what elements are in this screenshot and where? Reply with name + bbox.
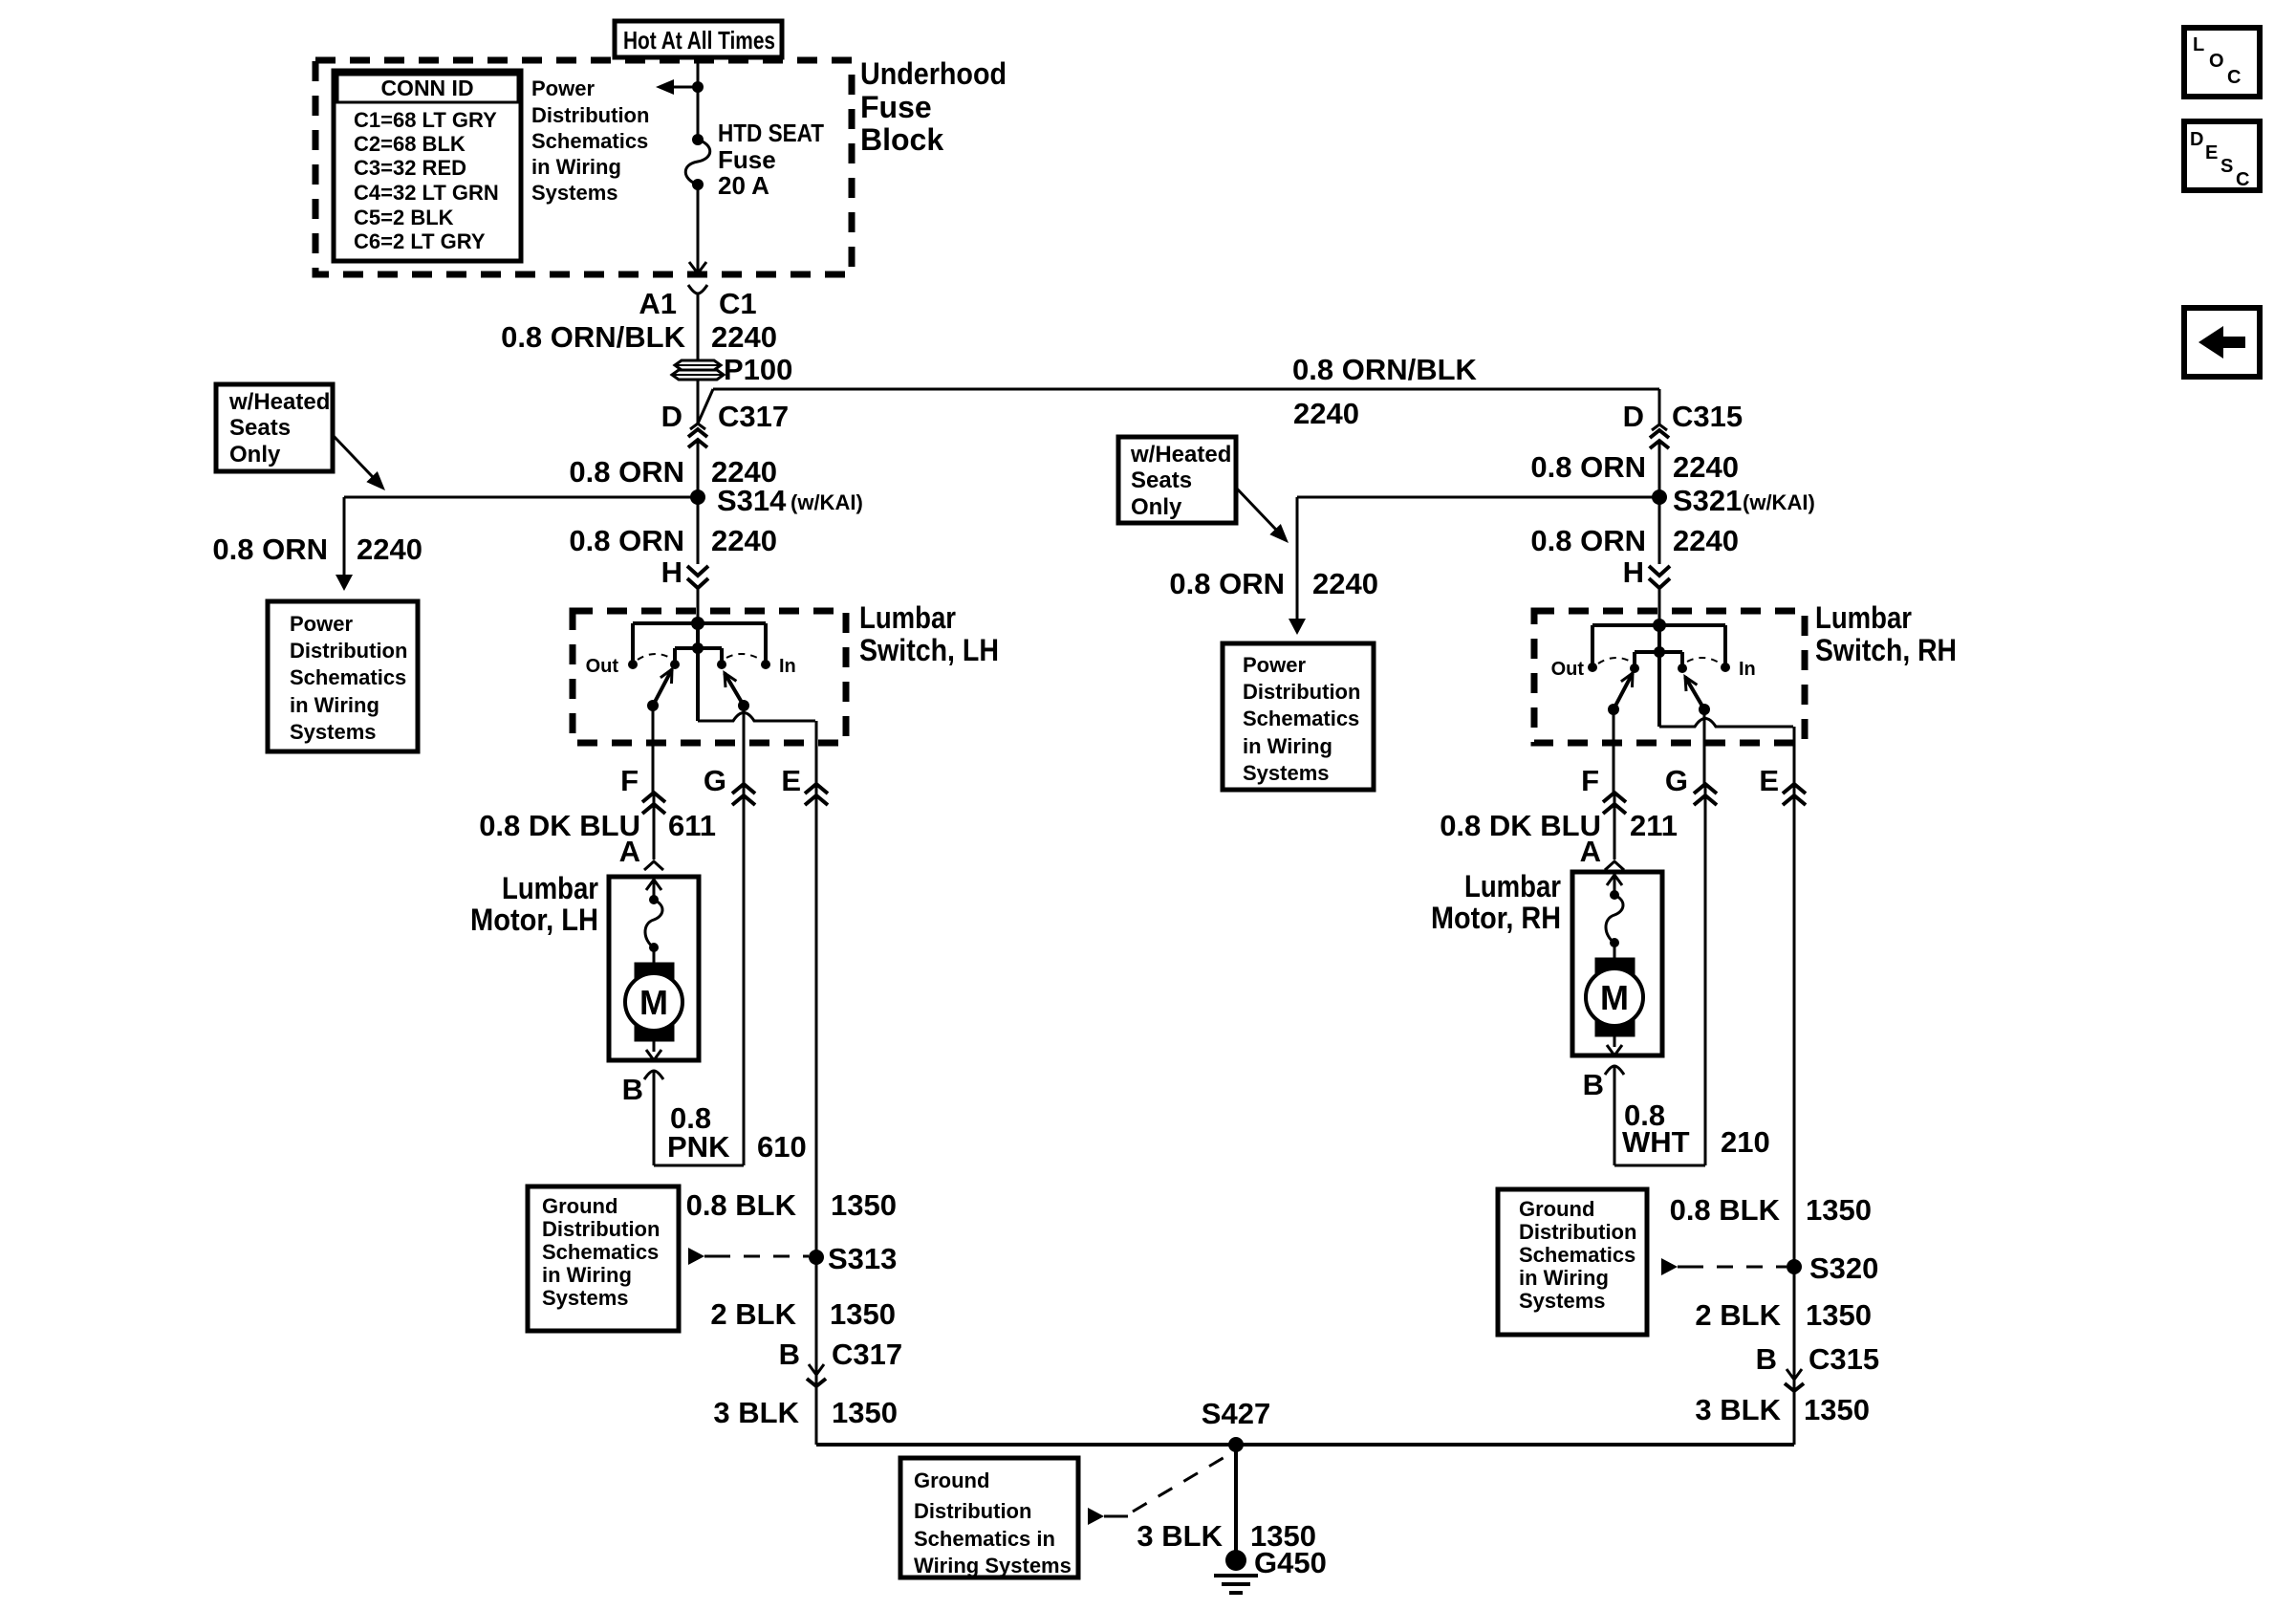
svg-text:HTD SEAT: HTD SEAT [718, 119, 824, 147]
label 0.8 PNK 610 [667, 1101, 807, 1164]
svg-text:S: S [2220, 156, 2233, 177]
svg-text:Motor, LH: Motor, LH [470, 903, 598, 937]
arrow w/Heated to wire (left) [333, 435, 385, 490]
Ground Distribution box (bottom) [900, 1458, 1078, 1577]
label Power Distribution Schematics in Wiring Systems (right) [1243, 653, 1360, 785]
connector D C317 [661, 400, 790, 447]
switch RH top junction and bar [1592, 619, 1725, 667]
wire E pin (RH) [1659, 719, 1806, 1446]
svg-text:Wiring Systems: Wiring Systems [914, 1554, 1072, 1577]
svg-text:S321: S321 [1673, 484, 1742, 517]
svg-text:1350: 1350 [1806, 1298, 1872, 1332]
wire C315 to S321 [1658, 441, 1661, 497]
svg-text:(w/KAI): (w/KAI) [791, 490, 863, 514]
svg-text:M: M [1600, 978, 1629, 1017]
connector B (motor LH) [622, 1071, 663, 1165]
svg-text:Block: Block [860, 122, 943, 157]
svg-text:E: E [2205, 142, 2218, 163]
svg-text:Lumbar: Lumbar [502, 871, 598, 905]
svg-text:Only: Only [1131, 494, 1182, 520]
svg-text:Power: Power [531, 76, 595, 100]
splice S320 [1787, 1259, 1802, 1274]
label 0.8 DK BLU 611 [479, 809, 716, 842]
svg-text:C6=2 LT GRY: C6=2 LT GRY [354, 229, 486, 253]
label Ground Distribution Schematics in Wiring Systems (RH) [1519, 1197, 1636, 1313]
label Lumbar Motor, LH [470, 871, 598, 937]
svg-text:PNK: PNK [667, 1130, 730, 1164]
svg-text:D: D [2190, 129, 2203, 150]
svg-text:C315: C315 [1672, 400, 1743, 433]
svg-text:C317: C317 [832, 1338, 902, 1371]
wire from Hot At All Times into fuse [697, 56, 700, 140]
label H (left) [661, 555, 682, 589]
svg-text:A: A [619, 835, 640, 868]
label Lumbar Motor, RH [1431, 869, 1561, 935]
svg-text:Systems: Systems [542, 1286, 629, 1310]
svg-text:B: B [622, 1073, 643, 1106]
label F (LH) [620, 764, 639, 797]
svg-text:L: L [2193, 34, 2204, 55]
svg-text:1350: 1350 [831, 1188, 897, 1222]
motor RH armature [1586, 958, 1643, 1055]
svg-text:1350: 1350 [830, 1297, 896, 1331]
w/Heated Seats Only box (right) [1118, 437, 1236, 523]
svg-text:610: 610 [757, 1130, 807, 1164]
svg-text:S313: S313 [828, 1242, 897, 1275]
svg-text:3 BLK: 3 BLK [1695, 1393, 1781, 1426]
svg-text:Schematics: Schematics [1243, 707, 1359, 730]
label Out (LH) [586, 656, 619, 677]
label 3 BLK 1350 (RH) [1695, 1393, 1870, 1426]
wire F pin (LH) [642, 706, 665, 859]
svg-text:210: 210 [1721, 1125, 1770, 1159]
connector A1/C1 [639, 285, 756, 320]
svg-text:2 BLK: 2 BLK [1695, 1298, 1781, 1332]
svg-text:Schematics in: Schematics in [914, 1527, 1055, 1551]
splice S321 [1652, 490, 1667, 505]
svg-text:Systems: Systems [531, 181, 618, 205]
svg-text:3 BLK: 3 BLK [1137, 1519, 1223, 1553]
connector B (motor RH) [1583, 1066, 1624, 1165]
label 0.8 ORN 2240 below S314 [569, 524, 777, 557]
svg-text:in Wiring: in Wiring [1243, 734, 1332, 758]
CONN ID rows [354, 108, 499, 253]
svg-text:A: A [1580, 835, 1601, 868]
switch RH detent arcs [1598, 658, 1721, 664]
svg-text:1350: 1350 [832, 1396, 898, 1429]
Lumbar Switch LH dashed box [573, 611, 846, 743]
label S320 [1809, 1251, 1878, 1285]
Lumbar Motor LH box [609, 877, 699, 1060]
label 0.8 WHT 210 [1622, 1099, 1770, 1159]
wire motor B to switch G (LH) [654, 1164, 744, 1167]
svg-text:C: C [2236, 169, 2249, 190]
wire E pin (LH) [698, 713, 828, 1446]
svg-text:0.8 ORN/BLK: 0.8 ORN/BLK [501, 320, 686, 354]
svg-text:in Wiring: in Wiring [290, 693, 379, 717]
svg-text:Ground: Ground [914, 1469, 989, 1492]
switch LH feed bar to contacts [670, 623, 726, 721]
svg-text:Distribution: Distribution [1519, 1220, 1636, 1244]
svg-text:Schematics: Schematics [531, 129, 648, 153]
svg-text:Lumbar: Lumbar [859, 600, 956, 635]
svg-text:w/Heated: w/Heated [1130, 442, 1231, 468]
note Power Distribution Schematics in Wiring Systems (fuse block) [531, 76, 649, 205]
switch LH detent arcs [638, 654, 761, 660]
svg-text:in Wiring: in Wiring [531, 155, 621, 179]
label CONN ID [380, 76, 473, 100]
underhood fuse block dashed box [315, 60, 852, 274]
svg-text:C2=68 BLK: C2=68 BLK [354, 132, 466, 156]
wire A1/C1 to P100 [697, 294, 700, 360]
label 0.8 BLK 1350 (RH) [1670, 1193, 1872, 1227]
connector D C315 [1623, 400, 1744, 448]
svg-text:in Wiring: in Wiring [542, 1263, 632, 1287]
svg-text:Systems: Systems [1519, 1289, 1606, 1313]
dashed leader to S427 [1088, 1453, 1231, 1525]
switch LH In terminal [761, 660, 770, 669]
label Ground Distribution Schematics in Wiring Systems (bottom) [914, 1469, 1072, 1577]
switch LH wiper to F [647, 669, 672, 711]
label w/Heated Seats Only (left) [228, 389, 330, 468]
dashed leader to S320 [1661, 1258, 1787, 1275]
label E (RH) [1759, 764, 1779, 797]
label 0.8 ORN 2240 below S321 [1530, 524, 1739, 557]
LOC reference box [2184, 28, 2260, 97]
svg-text:Schematics: Schematics [1519, 1243, 1635, 1267]
svg-text:G: G [704, 764, 726, 797]
fuse HTD SEAT 20A [685, 134, 710, 190]
label E (LH) [781, 764, 801, 797]
svg-text:Seats: Seats [1131, 468, 1192, 493]
svg-text:2240: 2240 [711, 320, 777, 354]
label A (RH) and connector [1580, 835, 1624, 870]
svg-text:20 A: 20 A [718, 171, 769, 200]
svg-text:Schematics: Schematics [542, 1240, 659, 1264]
label In (LH) [779, 656, 796, 677]
motor RH internal switch [1606, 875, 1623, 958]
svg-text:0.8 ORN: 0.8 ORN [1530, 450, 1646, 484]
arrow w/Heated to wire (right) [1236, 488, 1289, 543]
svg-text:C3=32 RED: C3=32 RED [354, 156, 466, 180]
svg-text:3 BLK: 3 BLK [713, 1396, 799, 1429]
wire motor B to switch G (RH) [1614, 1164, 1705, 1167]
svg-text:in Wiring: in Wiring [1519, 1266, 1609, 1290]
svg-text:CONN ID: CONN ID [380, 76, 473, 100]
label G450 [1254, 1546, 1327, 1579]
label H (right) [1623, 555, 1644, 589]
svg-text:B: B [1756, 1342, 1777, 1376]
label Lumbar Switch, LH [859, 600, 999, 667]
svg-text:0.8 ORN: 0.8 ORN [212, 533, 328, 566]
label 2 BLK 1350 (RH) [1695, 1298, 1872, 1332]
Hot At All Times box [615, 21, 782, 57]
label 0.8 ORN 2240 (left branch) [212, 533, 422, 566]
splice S314 [690, 490, 705, 505]
svg-text:Distribution: Distribution [542, 1217, 660, 1241]
DESC reference box [2184, 121, 2260, 190]
svg-text:Systems: Systems [290, 720, 377, 744]
w/Heated Seats Only box (left) [216, 384, 333, 471]
wire G pin (RH) [1694, 709, 1717, 1165]
Ground Distribution Schematics box (RH) [1498, 1189, 1647, 1335]
svg-text:Power: Power [1243, 653, 1306, 677]
svg-text:C5=2 BLK: C5=2 BLK [354, 206, 454, 229]
label 0.8 ORN/BLK (right) [1292, 353, 1478, 386]
label S313 [828, 1242, 897, 1275]
switch LH top junction and bar [633, 617, 766, 664]
svg-text:1350: 1350 [1806, 1193, 1872, 1227]
svg-text:Out: Out [1551, 659, 1585, 680]
svg-text:Distribution: Distribution [1243, 680, 1360, 704]
svg-text:0.8 BLK: 0.8 BLK [686, 1188, 797, 1222]
svg-text:E: E [781, 764, 801, 797]
splice S313 [809, 1250, 824, 1265]
svg-text:1350: 1350 [1804, 1393, 1870, 1426]
svg-text:611: 611 [668, 809, 716, 842]
label HTD SEAT Fuse 20 A [718, 119, 824, 200]
svg-text:Lumbar: Lumbar [1464, 869, 1561, 903]
svg-text:C4=32 LT GRN: C4=32 LT GRN [354, 181, 499, 205]
svg-text:0.8 ORN: 0.8 ORN [569, 455, 684, 489]
switch LH wiper to G/E [725, 673, 749, 711]
svg-text:WHT: WHT [1622, 1125, 1690, 1159]
svg-text:Fuse: Fuse [718, 145, 776, 174]
svg-text:Switch, LH: Switch, LH [859, 633, 999, 667]
svg-text:C317: C317 [718, 400, 789, 433]
svg-text:Systems: Systems [1243, 761, 1330, 785]
connector B/C315 (RH) [1785, 1369, 1804, 1445]
dashed leader to S313 [688, 1248, 809, 1265]
Ground Distribution Schematics box (LH) [528, 1186, 679, 1331]
svg-text:F: F [1581, 764, 1599, 797]
label In (RH) [1739, 659, 1756, 680]
svg-text:Schematics: Schematics [290, 665, 406, 689]
label B C317 (bottom LH) [779, 1338, 903, 1371]
svg-text:H: H [661, 555, 682, 589]
svg-text:Seats: Seats [229, 415, 291, 441]
wire P100 to C317 [697, 380, 700, 424]
svg-text:Power: Power [290, 612, 353, 636]
svg-text:Ground: Ground [542, 1194, 617, 1218]
label Out (RH) [1551, 659, 1585, 680]
svg-text:2240: 2240 [1312, 567, 1378, 600]
label 3 BLK 1350 (LH) [713, 1396, 898, 1429]
label Underhood Fuse Block [860, 56, 1007, 157]
svg-text:2240: 2240 [1673, 524, 1739, 557]
svg-text:0.8 ORN: 0.8 ORN [569, 524, 684, 557]
svg-text:In: In [1739, 659, 1756, 680]
wire S427 to G450 [1234, 1445, 1238, 1558]
label S427 [1202, 1397, 1270, 1430]
svg-text:2240: 2240 [357, 533, 422, 566]
label w/Heated Seats Only (right) [1130, 442, 1231, 520]
label S321 (w/KAI) [1673, 484, 1815, 517]
svg-text:G450: G450 [1254, 1546, 1327, 1579]
label F (RH) [1581, 764, 1599, 797]
svg-text:2240: 2240 [711, 524, 777, 557]
Power Distribution Schematics box (left) [268, 601, 418, 751]
switch RH wiper to G/E [1685, 677, 1710, 715]
svg-text:B: B [779, 1338, 800, 1371]
switch RH wiper to F [1608, 673, 1633, 715]
motor LH armature [625, 963, 682, 1060]
svg-text:2240: 2240 [1293, 397, 1359, 430]
svg-text:D: D [661, 400, 682, 433]
svg-text:w/Heated: w/Heated [228, 389, 330, 415]
svg-text:C315: C315 [1809, 1342, 1879, 1376]
label 3 BLK 1350 (bottom) [1137, 1519, 1316, 1553]
svg-text:E: E [1759, 764, 1779, 797]
Lumbar Motor RH box [1572, 872, 1662, 1055]
label Power Distribution Schematics in Wiring Systems (left) [290, 612, 407, 744]
label G (RH) [1665, 764, 1688, 797]
label Lumbar Switch, RH [1815, 600, 1957, 667]
label Hot At All Times [623, 26, 775, 54]
svg-text:(w/KAI): (w/KAI) [1743, 490, 1815, 514]
label B C315 (bottom RH) [1756, 1342, 1880, 1376]
switch RH In terminal [1721, 663, 1730, 672]
svg-text:Distribution: Distribution [531, 103, 649, 127]
svg-text:2240: 2240 [1673, 450, 1739, 484]
wire C317 to S314 [697, 440, 700, 497]
svg-text:0.8 ORN: 0.8 ORN [1169, 567, 1285, 600]
grommet P100 [672, 360, 724, 380]
junction dot to power distribution note [692, 81, 704, 93]
svg-text:S427: S427 [1202, 1397, 1270, 1430]
arrow to power distribution note [656, 79, 698, 95]
svg-text:Underhood: Underhood [860, 56, 1007, 91]
label 0.8 ORN 2240 above S321 [1530, 450, 1739, 484]
svg-text:S320: S320 [1809, 1251, 1878, 1285]
ground bus wire [816, 1443, 1794, 1447]
CONN ID table [334, 71, 521, 261]
svg-text:211: 211 [1630, 809, 1678, 842]
switch RH Out terminal [1588, 663, 1597, 672]
label A (LH) and connector [619, 835, 663, 870]
connector H chevrons (left) [687, 497, 708, 623]
label P100 [724, 353, 792, 386]
svg-text:B: B [1583, 1068, 1604, 1101]
Lumbar Switch RH dashed box [1534, 611, 1805, 743]
label 0.8 ORN 2240 above S314 [569, 455, 777, 489]
label S314 (w/KAI) [717, 484, 863, 517]
svg-text:0.8 ORN: 0.8 ORN [1530, 524, 1646, 557]
svg-text:Motor, RH: Motor, RH [1431, 901, 1561, 935]
connector H chevrons (right) [1649, 497, 1670, 625]
label 0.8 ORN/BLK 2240 [501, 320, 777, 354]
svg-text:Ground: Ground [1519, 1197, 1594, 1221]
label 2240 (right) [1293, 397, 1359, 430]
switch LH Out terminal [628, 660, 638, 669]
label Ground Distribution Schematics in Wiring Systems (LH) [542, 1194, 660, 1310]
svg-text:Hot At All Times: Hot At All Times [623, 26, 775, 54]
label 0.8 DK BLU 211 [1440, 809, 1678, 842]
svg-text:F: F [620, 764, 639, 797]
motor LH internal switch [645, 880, 662, 963]
svg-text:Lumbar: Lumbar [1815, 600, 1912, 635]
label G (LH) [704, 764, 726, 797]
svg-text:2 BLK: 2 BLK [710, 1297, 796, 1331]
svg-text:Distribution: Distribution [914, 1499, 1031, 1523]
wire G pin (LH) [732, 706, 755, 1165]
svg-text:0.8 ORN/BLK: 0.8 ORN/BLK [1292, 353, 1478, 386]
svg-text:A1: A1 [639, 287, 677, 320]
connector B/C317 (LH) [807, 1364, 826, 1445]
svg-text:O: O [2209, 51, 2224, 72]
wire fuse to fuse block edge [689, 185, 706, 273]
svg-text:Distribution: Distribution [290, 639, 407, 663]
svg-text:M: M [639, 983, 668, 1022]
switch RH feed bar to contacts [1630, 625, 1687, 727]
svg-text:H: H [1623, 555, 1644, 589]
Power Distribution Schematics box (right) [1223, 643, 1374, 790]
back arrow box [2184, 308, 2260, 377]
svg-text:Out: Out [586, 656, 619, 677]
svg-text:In: In [779, 656, 796, 677]
label 0.8 BLK 1350 (LH) [686, 1188, 897, 1222]
svg-text:0.8 DK BLU: 0.8 DK BLU [1440, 809, 1601, 842]
svg-text:Switch, RH: Switch, RH [1815, 633, 1957, 667]
ground G450 [1214, 1550, 1258, 1593]
wire F pin (RH) [1603, 709, 1626, 859]
wire S321 to power distribution (right) [1289, 497, 1659, 635]
svg-text:0.8 BLK: 0.8 BLK [1670, 1193, 1781, 1227]
svg-text:G: G [1665, 764, 1688, 797]
svg-text:Only: Only [229, 442, 281, 468]
svg-text:C1=68 LT GRY: C1=68 LT GRY [354, 108, 497, 132]
svg-text:P100: P100 [724, 353, 792, 386]
svg-text:C: C [2227, 67, 2241, 88]
label 2 BLK 1350 (LH) [710, 1297, 896, 1331]
svg-text:D: D [1623, 400, 1644, 433]
splice S427 [1228, 1437, 1244, 1452]
svg-text:0.8 DK BLU: 0.8 DK BLU [479, 809, 640, 842]
wire S314 to power distribution (left) [336, 497, 698, 591]
label 0.8 ORN 2240 (right branch) [1169, 567, 1378, 600]
svg-text:Fuse: Fuse [860, 90, 932, 124]
svg-text:C1: C1 [719, 287, 757, 320]
wire branch to RH (0.8 ORN/BLK) [698, 389, 1659, 424]
svg-text:S314: S314 [717, 484, 787, 517]
